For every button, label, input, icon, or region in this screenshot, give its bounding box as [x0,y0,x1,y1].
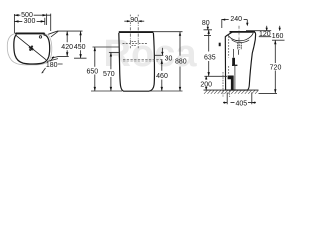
dim 300 arrows [14,20,44,22]
bottom ref line right [150,90,183,92]
dim 200 ref [204,75,227,77]
dim 570 line [110,52,112,91]
svg-text:880: 880 [175,59,187,66]
dim 420 line [66,31,68,56]
outlet pipe thick (into floor) [228,76,234,91]
dim 635 line [208,30,210,76]
svg-text:80: 80 [202,20,210,27]
pedestal front view outline [119,33,155,91]
trap thick bar [232,58,235,65]
dim 240 ext line [222,19,248,28]
dim 30 arrow line [161,48,163,56]
wall fixing mark [219,43,221,47]
dim 200 line [205,76,207,90]
side rim top bold [230,31,256,33]
svg-text:450: 450 [74,44,86,51]
drain flower [29,46,33,51]
svg-text:720: 720 [270,64,282,71]
dim 450 bottom ref [47,58,87,61]
dim 420 bottom ref [52,56,69,58]
dim 300 line [14,18,44,25]
bowl shell second line [232,40,250,43]
dim 500 arrows [14,14,46,16]
pipe into floor dashed [223,72,230,97]
side bowl interior curve [228,33,253,41]
dim 80 refs [204,30,213,36]
bowl bottom hidden dashed pair [123,59,164,61]
svg-text:200: 200 [200,81,212,88]
dim 880 top ref [153,31,182,33]
svg-text:635: 635 [204,55,216,62]
dim 420/450 top ref line [57,30,83,32]
svg-text:180: 180 [46,62,58,69]
svg-text:240: 240 [230,16,242,23]
fixing dashed line [123,43,148,45]
basin inner bowl outline [14,35,50,64]
dim 500 ext lines [14,14,50,34]
dim 450 line [80,31,82,58]
dim 570 ref line [109,51,120,53]
drain pipe lines [234,49,239,75]
dim 405 ext lines [227,93,252,105]
dim 500 line [14,14,50,16]
dim 650 line [94,47,96,91]
back hidden dashed line [228,36,230,75]
pedestal top bold line [119,31,154,33]
drain centerline [238,26,240,50]
slant connectors to basin [48,31,58,37]
dim 450 arrows [79,31,81,58]
outlet pipe right line [234,75,236,90]
svg-text:160: 160 [272,33,284,40]
bottom ref line left [91,90,122,92]
svg-text:420: 420 [61,44,73,51]
dim 460 line [161,60,163,91]
dim 180 leader SW segment [42,68,46,73]
dim 120 refs [246,31,271,37]
dim 30 ref lines [155,54,164,56]
dim 120 arrow [266,26,268,31]
drain fitting dashes [238,43,241,50]
dim 160 arrow [279,26,281,31]
bowl inner diagonal chord [16,35,46,59]
dim 650 ref line [93,46,120,48]
dim 160 ref [272,39,285,41]
dim 405 line [223,102,256,104]
floor hatching [204,90,258,93]
tap centerlines (dash-dot) [130,15,138,49]
svg-text:570: 570 [103,71,115,78]
deck end lips [16,34,45,36]
svg-text:30: 30 [165,55,173,62]
dim 90 [129,16,139,22]
side view rim and pedestal outline [225,32,255,90]
svg-text:Roca: Roca [104,33,198,75]
trap foot [232,64,237,66]
svg-text:650: 650 [86,68,98,75]
dim 80 arrow [207,25,209,30]
tap hole [39,36,41,38]
svg-text:120: 120 [259,31,271,38]
svg-text:90: 90 [130,17,138,24]
svg-text:460: 460 [156,73,168,80]
dim 880 line [179,32,181,91]
dim 240 line [222,19,248,21]
dim 420 arrows [66,31,68,56]
floor line side view [204,89,259,91]
fixing hole dashes [132,42,137,46]
dim 720 bottom ref [259,92,278,94]
dim 720 line [274,40,276,93]
basin top view outer outline (faint) [7,34,52,65]
svg-text:405: 405 [235,101,247,108]
svg-text:300: 300 [24,18,36,25]
dim 180 leader NE segment [50,57,63,64]
basin deck edge (bold top line) [16,32,44,34]
